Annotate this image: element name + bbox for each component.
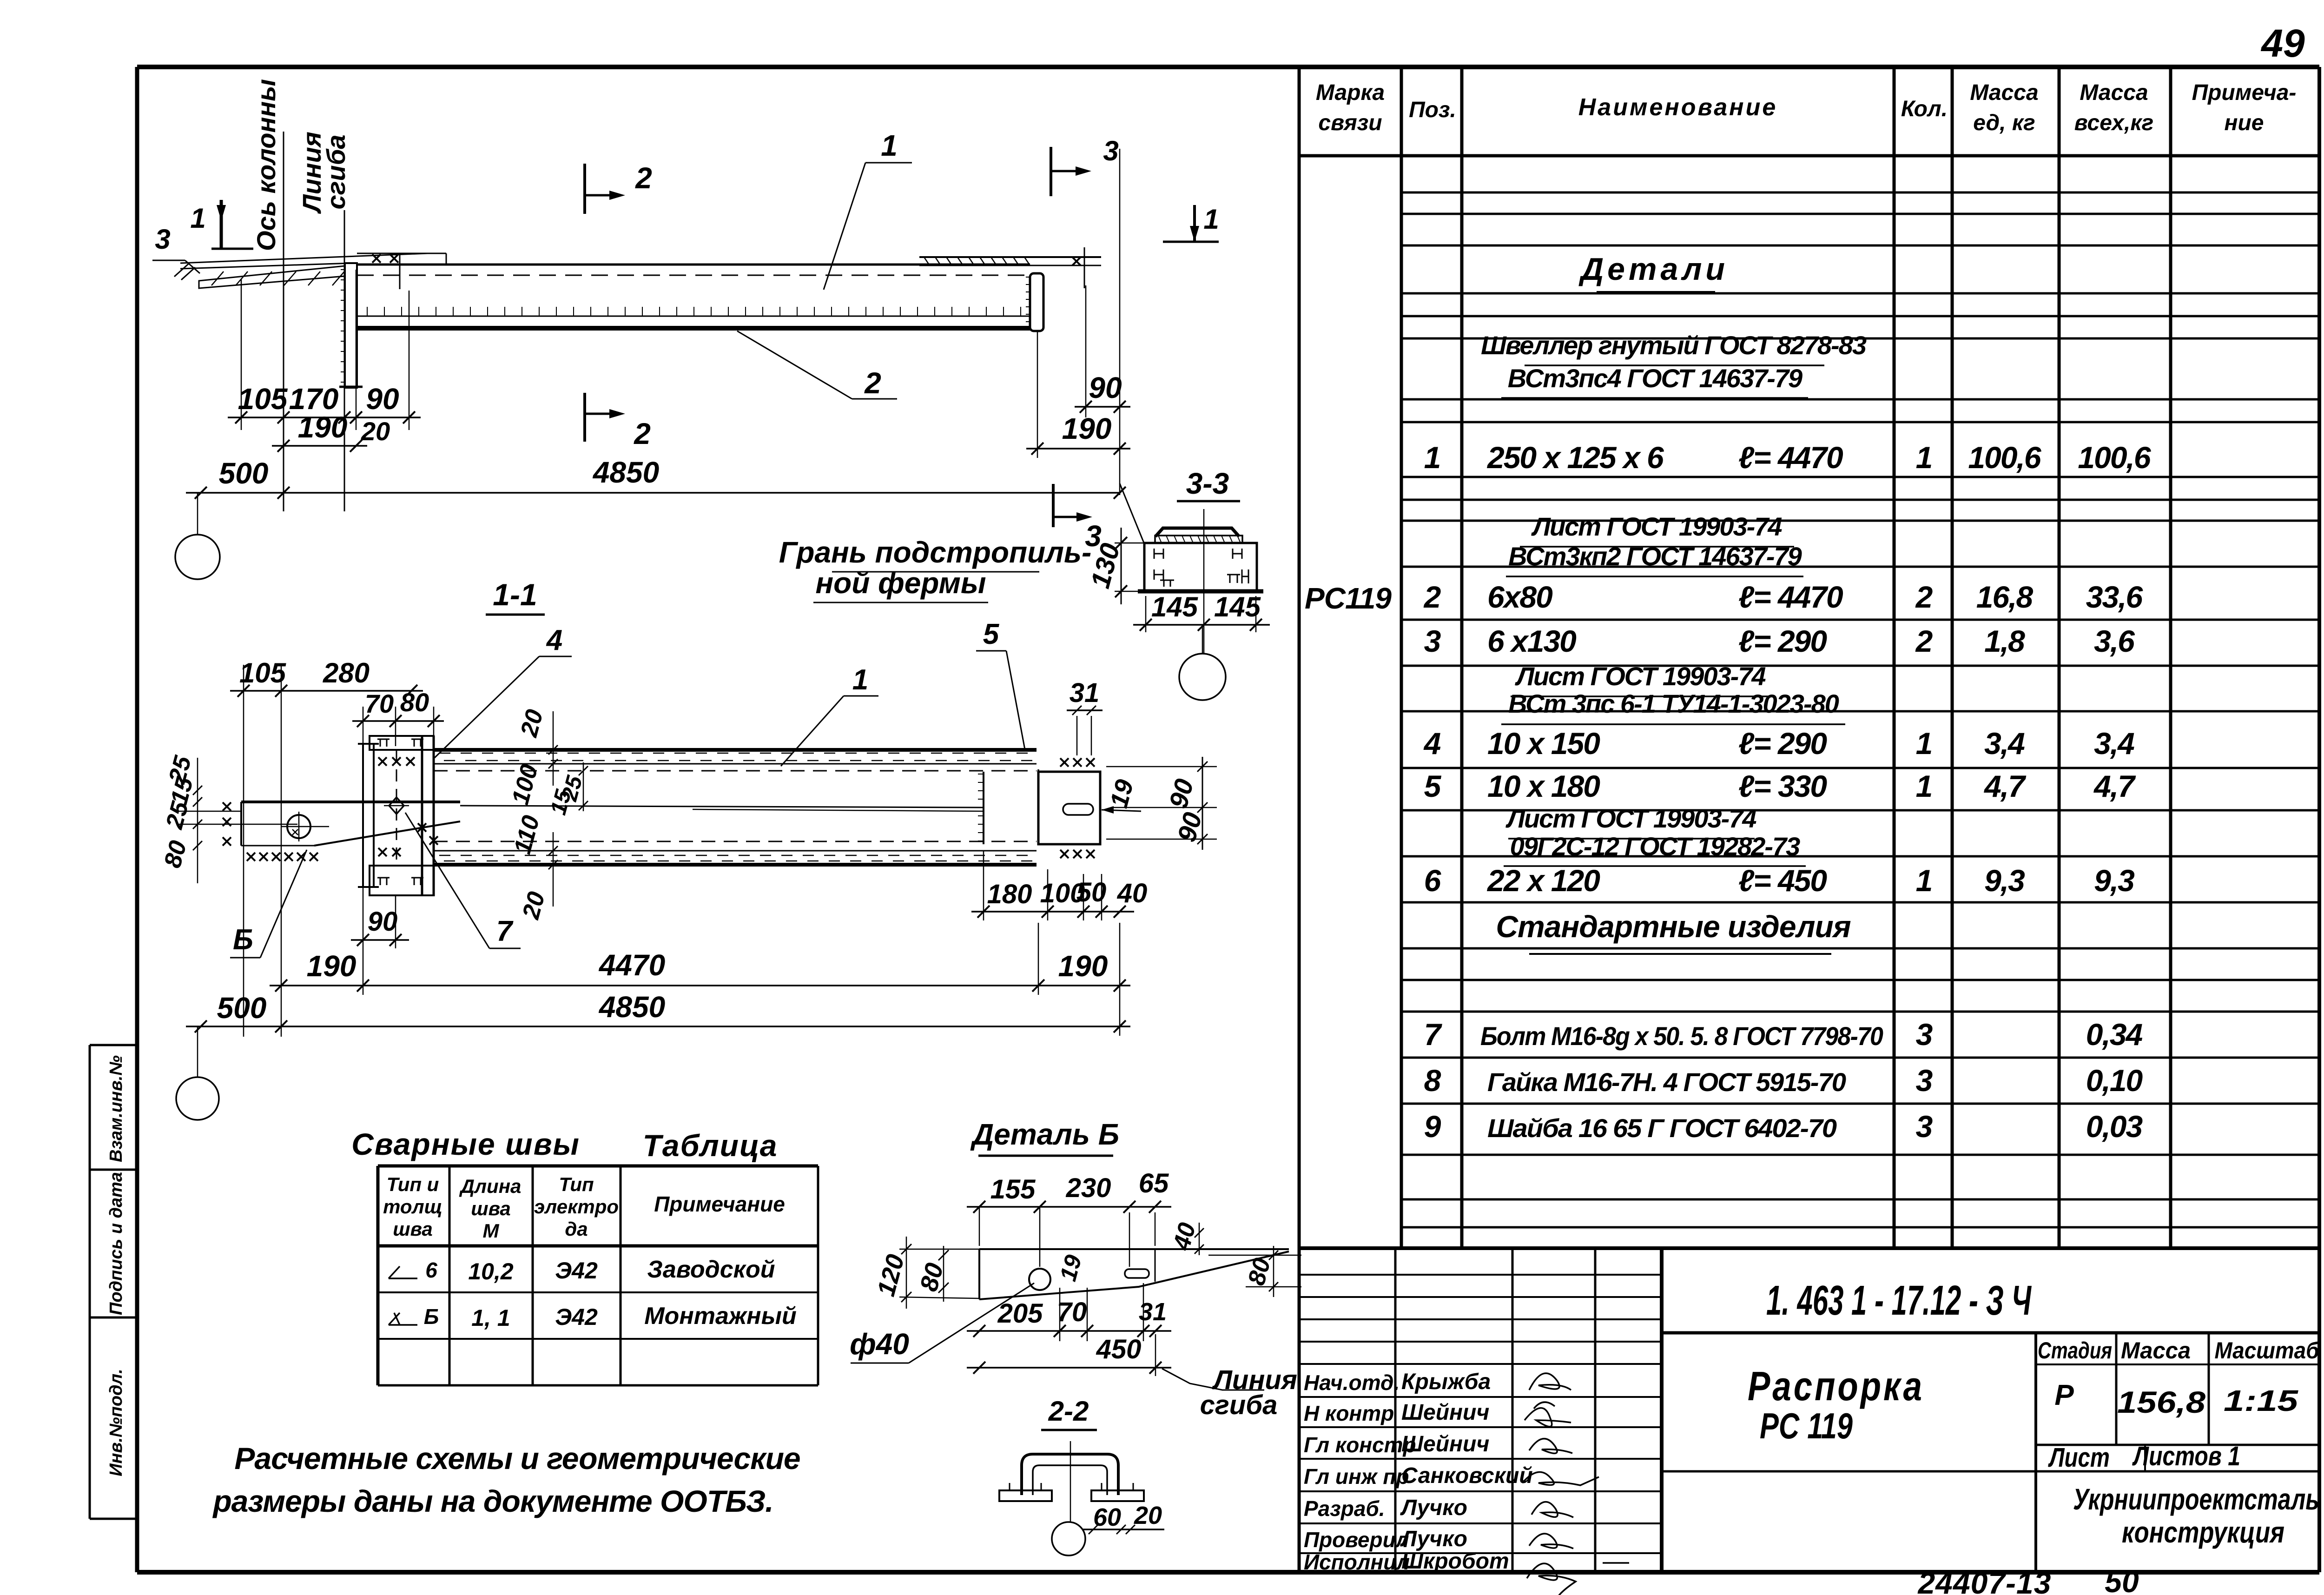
svg-text:связи: связи <box>1318 111 1382 135</box>
section 1-1 beam web line <box>460 806 984 807</box>
weld table row 1 <box>389 1266 417 1278</box>
title block signatures <box>1529 1373 1571 1390</box>
svg-text:Тип и: Тип и <box>387 1173 439 1195</box>
svg-text:1:15: 1:15 <box>2224 1384 2299 1417</box>
beam hatch ticks <box>367 307 368 316</box>
section mark 1 right <box>1163 241 1219 243</box>
svg-text:1-1: 1-1 <box>493 577 537 612</box>
svg-text:Проверил: Проверил <box>1304 1528 1409 1552</box>
svg-text:5: 5 <box>1424 769 1442 803</box>
section 1-1 gusset plates <box>362 744 364 887</box>
svg-text:80: 80 <box>400 688 429 717</box>
svg-text:2: 2 <box>864 366 881 400</box>
svg-text:3-3: 3-3 <box>1186 467 1229 500</box>
detail B plate <box>979 1248 1289 1250</box>
svg-text:Инв.№подл.: Инв.№подл. <box>106 1369 126 1476</box>
dimension 190 top view right <box>1026 448 1130 450</box>
svg-text:105: 105 <box>239 657 287 688</box>
column mark circle section 3-3 <box>1179 654 1226 700</box>
svg-text:Поз.: Поз. <box>1409 98 1456 122</box>
svg-text:размеры даны на документе: размеры даны на документе ООТБЗ. <box>212 1484 773 1518</box>
svg-text:ℓ= 450: ℓ= 450 <box>1738 863 1827 898</box>
title block signature area verticals <box>1394 1248 1397 1572</box>
svg-text:ед, кг: ед, кг <box>1973 111 2035 135</box>
section 2-2 channel <box>1022 1454 1118 1495</box>
svg-text:Листов 1: Листов 1 <box>2132 1441 2240 1471</box>
svg-text:3,6: 3,6 <box>2094 624 2135 658</box>
svg-text:40: 40 <box>1117 878 1148 908</box>
svg-text:Заводской: Заводской <box>647 1256 775 1283</box>
svg-text:16,8: 16,8 <box>1976 580 2033 614</box>
section 1-1 end plate poz5 <box>983 772 984 844</box>
gusset bolt diamond <box>389 797 404 814</box>
section 3-3 bolt symbols <box>1154 549 1163 559</box>
svg-text:да: да <box>565 1218 588 1240</box>
svg-text:90: 90 <box>368 907 398 937</box>
svg-text:09Г2С-12 ГОСТ 19282-73: 09Г2С-12 ГОСТ 19282-73 <box>1510 832 1801 861</box>
parts table header separator <box>1299 154 2319 158</box>
svg-text:Подпись и дата: Подпись и дата <box>106 1172 126 1315</box>
gusset x marks <box>378 757 387 766</box>
bracket left dims 25 15 25 80 <box>197 758 198 883</box>
svg-text:1: 1 <box>852 664 868 696</box>
svg-text:Таблица: Таблица <box>643 1128 778 1163</box>
svg-text:ℓ= 4470: ℓ= 4470 <box>1738 580 1843 614</box>
svg-text:1: 1 <box>1916 769 1933 803</box>
svg-text:Укрниипроектсталь: Укрниипроектсталь <box>2073 1482 2319 1516</box>
svg-text:РС119: РС119 <box>1305 582 1392 615</box>
svg-text:280: 280 <box>323 657 370 688</box>
svg-text:Масштаб: Масштаб <box>2215 1337 2320 1363</box>
svg-text:шва: шва <box>471 1198 511 1219</box>
dimension 190 top view <box>272 445 367 447</box>
svg-text:190: 190 <box>1058 949 1108 983</box>
detail B slot hole <box>1125 1269 1149 1278</box>
bracket thin lines left <box>179 811 241 812</box>
svg-text:1: 1 <box>1916 863 1933 898</box>
parts table horizontal lines <box>1401 192 2319 194</box>
svg-text:Масса: Масса <box>2121 1337 2191 1363</box>
svg-text:сгиба: сгиба <box>1200 1390 1278 1420</box>
svg-text:Санковский: Санковский <box>1401 1463 1533 1488</box>
svg-text:250 х 125 х 6: 250 х 125 х 6 <box>1486 440 1664 475</box>
drawing/table divider <box>1298 67 1301 1572</box>
svg-text:Болт М16-8g х 50. 5. 8 ГОСТ 77: Болт М16-8g х 50. 5. 8 ГОСТ 7798-70 <box>1480 1021 1883 1051</box>
detail B right dims 40 80 <box>1199 1223 1200 1255</box>
svg-text:180: 180 <box>987 879 1032 909</box>
svg-text:190: 190 <box>307 949 357 983</box>
svg-text:100,6: 100,6 <box>2078 440 2151 475</box>
bracket bolt circle <box>287 815 310 838</box>
svg-text:ℓ= 290: ℓ= 290 <box>1738 726 1827 761</box>
svg-text:сгиба: сгиба <box>321 134 350 209</box>
svg-text:20: 20 <box>1134 1502 1162 1529</box>
section 3-3 hatched strip <box>1155 536 1242 543</box>
svg-text:1. 463 1 - 17.12 - З Ч: 1. 463 1 - 17.12 - З Ч <box>1766 1277 2032 1324</box>
svg-text:190: 190 <box>298 410 348 444</box>
detail B dim 450 <box>967 1367 1171 1369</box>
svg-text:Нач.отд.: Нач.отд. <box>1304 1370 1400 1395</box>
svg-text:90: 90 <box>1089 371 1122 404</box>
svg-text:Р: Р <box>2054 1379 2074 1411</box>
svg-text:Лучко: Лучко <box>1400 1527 1467 1551</box>
svg-text:90: 90 <box>366 382 399 416</box>
svg-text:Распорка: Распорка <box>1748 1363 1924 1409</box>
svg-text:Шайба 16 65 Г ГОСТ 6402-70: Шайба 16 65 Г ГОСТ 6402-70 <box>1487 1113 1837 1143</box>
section mark 2 top <box>583 164 586 214</box>
svg-text:3,4: 3,4 <box>1984 726 2025 761</box>
svg-text:3: 3 <box>1916 1109 1933 1144</box>
svg-text:24407-13: 24407-13 <box>1917 1566 2052 1595</box>
section 1-1 beam bottom band <box>434 841 1037 842</box>
svg-text:145: 145 <box>1214 591 1261 622</box>
svg-text:100,6: 100,6 <box>1968 440 2041 475</box>
svg-text:Деталь Б: Деталь Б <box>970 1118 1119 1151</box>
svg-text:10 х 150: 10 х 150 <box>1487 726 1600 761</box>
svg-text:33,6: 33,6 <box>2086 580 2144 614</box>
dimension 105 170 20 90 top view <box>228 417 421 418</box>
svg-text:9,3: 9,3 <box>1984 863 2025 898</box>
svg-text:Ось колонны: Ось колонны <box>251 79 281 251</box>
svg-text:Лист ГОСТ 19903-74: Лист ГОСТ 19903-74 <box>1531 512 1782 541</box>
svg-text:70: 70 <box>1057 1297 1087 1327</box>
svg-text:3: 3 <box>1916 1017 1933 1052</box>
svg-text:Лист ГОСТ 19903-74: Лист ГОСТ 19903-74 <box>1514 662 1766 691</box>
section 2-2 axis <box>1070 1441 1071 1522</box>
svg-text:Наименование: Наименование <box>1578 94 1778 121</box>
svg-text:Б: Б <box>424 1304 439 1329</box>
svg-text:Длина: Длина <box>459 1175 522 1197</box>
top view left bracket plate <box>345 263 357 388</box>
svg-text:1: 1 <box>1916 440 1933 475</box>
detail B dims 205 70 31 <box>967 1330 1171 1332</box>
section 1-1 axis lines <box>243 665 244 1037</box>
svg-text:450: 450 <box>1096 1334 1142 1364</box>
svg-text:1: 1 <box>1424 440 1441 475</box>
svg-text:2: 2 <box>1915 624 1933 658</box>
svg-text:1: 1 <box>881 129 898 162</box>
side stamp boxes <box>89 1045 91 1519</box>
svg-text:М: М <box>483 1220 500 1242</box>
svg-text:9,3: 9,3 <box>2094 863 2134 898</box>
svg-text:Исполнил: Исполнил <box>1304 1550 1410 1574</box>
svg-text:2: 2 <box>1915 580 1933 614</box>
dimension 190 4470 190 <box>270 985 1130 986</box>
svg-text:6: 6 <box>1424 863 1442 898</box>
svg-text:50: 50 <box>2105 1564 2139 1595</box>
svg-text:ВСт 3пс 6-1 ТУ14-1-3023-80: ВСт 3пс 6-1 ТУ14-1-3023-80 <box>1508 689 1839 718</box>
svg-text:6: 6 <box>425 1258 437 1282</box>
section mark 3 lower <box>1052 484 1055 527</box>
section 2-2 circle <box>1052 1522 1085 1555</box>
svg-text:шва: шва <box>393 1218 433 1240</box>
dimension 90 gusset bottom <box>351 939 409 941</box>
svg-text:4850: 4850 <box>592 456 659 489</box>
dimension 90 top view right <box>1075 406 1130 408</box>
svg-text:Гл инж пр: Гл инж пр <box>1304 1464 1409 1489</box>
svg-text:31: 31 <box>1070 678 1100 708</box>
detail B left dims 120 80 <box>906 1237 907 1309</box>
svg-text:конструкция: конструкция <box>2122 1516 2284 1549</box>
title block thin rows <box>1299 1274 1662 1276</box>
svg-text:65: 65 <box>1139 1168 1169 1198</box>
parts table bottom line <box>1299 1246 2319 1250</box>
svg-text:5: 5 <box>983 618 1000 650</box>
svg-text:всех,кг: всех,кг <box>2074 111 2154 135</box>
svg-text:ВСт3кп2 ГОСТ 14637-79: ВСт3кп2 ГОСТ 14637-79 <box>1508 542 1802 571</box>
svg-text:6х80: 6х80 <box>1487 580 1553 614</box>
svg-text:Крыжба: Крыжба <box>1401 1370 1491 1394</box>
axis bend line (liniya sgiba) <box>344 210 345 511</box>
svg-text:Лучко: Лучко <box>1400 1496 1467 1520</box>
svg-text:6 х130: 6 х130 <box>1487 624 1577 658</box>
column mark circle section 1-1 <box>176 1077 219 1120</box>
svg-text:Примеча-: Примеча- <box>2192 80 2297 105</box>
section 3-3 body <box>1144 543 1257 591</box>
detail B hole circle <box>1029 1269 1050 1290</box>
svg-text:7: 7 <box>496 915 514 947</box>
svg-text:Тип: Тип <box>559 1173 594 1195</box>
svg-text:Гл констр: Гл констр <box>1304 1433 1416 1457</box>
svg-text:1,8: 1,8 <box>1984 624 2025 658</box>
svg-text:Э42: Э42 <box>555 1257 598 1284</box>
section mark 2 bottom <box>583 393 586 442</box>
gusset channel symbols <box>377 739 390 747</box>
svg-text:Сварные швы: Сварные швы <box>351 1127 580 1161</box>
svg-text:Взам.инв.№: Взам.инв.№ <box>106 1055 126 1162</box>
long extension line right <box>1119 149 1121 495</box>
svg-text:3: 3 <box>1916 1063 1933 1098</box>
section 2-2 dims 60 20 <box>1083 1529 1164 1530</box>
dimension 105 280 section 1-1 <box>230 690 423 692</box>
svg-text:Стадия: Стадия <box>2038 1337 2112 1363</box>
weld table grid <box>378 1165 818 1168</box>
svg-text:3: 3 <box>155 224 170 255</box>
svg-text:49: 49 <box>2260 21 2305 65</box>
svg-text:ℓ= 4470: ℓ= 4470 <box>1738 440 1843 475</box>
svg-text:4470: 4470 <box>598 948 665 982</box>
svg-text:4,7: 4,7 <box>1983 769 2027 803</box>
svg-text:4,7: 4,7 <box>2093 769 2136 803</box>
leader to 3-3 section <box>1120 483 1144 544</box>
svg-text:Масса: Масса <box>1970 80 2038 105</box>
svg-text:Стандартные изделия: Стандартные изделия <box>1496 909 1850 944</box>
svg-text:0,10: 0,10 <box>2086 1063 2143 1098</box>
svg-text:Гайка М16-7Н. 4 ГОСТ 5915-70: Гайка М16-7Н. 4 ГОСТ 5915-70 <box>1487 1067 1846 1097</box>
dimension 70 80 section 1-1 <box>352 720 444 722</box>
svg-text:электро: электро <box>534 1196 619 1218</box>
svg-text:Кол.: Кол. <box>1901 97 1948 121</box>
svg-text:толщ: толщ <box>383 1196 442 1218</box>
detail B bend line <box>1155 1249 1156 1282</box>
svg-text:ф40: ф40 <box>850 1327 909 1361</box>
page frame <box>137 65 2319 69</box>
dimension 90 90 right side <box>1202 757 1203 850</box>
svg-text:Э42: Э42 <box>555 1304 598 1330</box>
cross mark at plate end <box>1084 247 1085 288</box>
svg-text:9: 9 <box>1424 1109 1441 1144</box>
svg-text:500: 500 <box>217 991 267 1025</box>
title block name rows <box>1299 1396 1662 1398</box>
svg-text:230: 230 <box>1066 1173 1111 1203</box>
top view right end top plate poz2 <box>919 256 1101 258</box>
svg-text:190: 190 <box>1062 412 1112 445</box>
svg-text:1, 1: 1, 1 <box>471 1305 510 1331</box>
parts table verticals <box>1400 67 1403 1248</box>
svg-text:155: 155 <box>990 1174 1036 1205</box>
detail B dims 155 230 65 <box>967 1206 1171 1208</box>
svg-text:22 х 120: 22 х 120 <box>1486 863 1600 898</box>
svg-text:1: 1 <box>1203 204 1219 235</box>
svg-text:Расчетные схемы и геометрич: Расчетные схемы и геометрические <box>234 1441 800 1476</box>
svg-text:ВСт3пс4 ГОСТ 14637-79: ВСт3пс4 ГОСТ 14637-79 <box>1508 364 1802 393</box>
svg-text:ние: ние <box>2224 111 2264 135</box>
svg-text:10 х 180: 10 х 180 <box>1487 769 1600 803</box>
svg-text:4: 4 <box>546 624 562 656</box>
svg-text:70: 70 <box>365 689 394 718</box>
svg-text:Масса: Масса <box>2080 80 2148 105</box>
svg-text:Марка: Марка <box>1316 80 1385 105</box>
svg-text:0,03: 0,03 <box>2086 1109 2143 1144</box>
svg-text:145: 145 <box>1151 591 1199 622</box>
svg-text:4: 4 <box>1423 726 1441 761</box>
column mark circle top view <box>175 535 220 579</box>
top view bent wedge plate <box>199 266 345 288</box>
section mark 1 left <box>220 200 223 249</box>
svg-text:Б: Б <box>233 924 253 956</box>
svg-text:Шейнич: Шейнич <box>1401 1400 1489 1425</box>
svg-text:ℓ= 330: ℓ= 330 <box>1738 769 1827 803</box>
svg-text:Монтажный: Монтажный <box>644 1303 797 1330</box>
svg-text:3,4: 3,4 <box>2094 726 2134 761</box>
svg-text:500: 500 <box>219 457 269 490</box>
svg-text:Лист ГОСТ 19903-74: Лист ГОСТ 19903-74 <box>1505 804 1756 833</box>
dimension 500 4850 top view <box>186 492 1120 494</box>
top view small plate right of bracket <box>357 253 446 254</box>
svg-text:ной фермы: ной фермы <box>815 566 986 600</box>
weld table row 2 <box>389 1313 417 1325</box>
top view beam channel poz1 <box>357 264 1030 266</box>
svg-text:Шейнич: Шейнич <box>1401 1432 1489 1456</box>
section 2-2 foot plates <box>999 1490 1052 1501</box>
svg-text:3: 3 <box>1424 624 1441 658</box>
svg-text:20: 20 <box>361 417 390 446</box>
dimension 500 4850 section 1-1 <box>186 1026 1130 1027</box>
svg-text:156,8: 156,8 <box>2117 1385 2205 1419</box>
svg-text:Разраб.: Разраб. <box>1304 1496 1385 1521</box>
svg-text:7: 7 <box>1424 1017 1443 1052</box>
svg-text:ℓ= 290: ℓ= 290 <box>1738 624 1827 658</box>
title block stadiya massa masshtab <box>2115 1333 2118 1445</box>
top view thin plate poz3 left <box>180 253 428 263</box>
svg-text:2-2: 2-2 <box>1048 1396 1089 1427</box>
svg-text:2: 2 <box>1423 580 1441 614</box>
axis column line (os kolonny) <box>283 132 284 511</box>
svg-text:Н контр: Н контр <box>1304 1401 1394 1425</box>
svg-text:Детали: Детали <box>1578 251 1729 287</box>
svg-text:3: 3 <box>1103 135 1118 166</box>
svg-text:1: 1 <box>1916 726 1933 761</box>
top view beam end plate <box>1030 273 1043 331</box>
svg-text:Лист: Лист <box>2048 1443 2110 1473</box>
section mark 3 right <box>1050 147 1052 196</box>
section 1-1 beam top band <box>434 748 1037 752</box>
dimension 145 145 section 3-3 <box>1133 624 1270 626</box>
svg-text:Примечание: Примечание <box>654 1192 785 1216</box>
svg-text:Грань подстропиль-: Грань подстропиль- <box>779 536 1092 569</box>
svg-text:Швеллер гнутый ГОСТ 8278-83: Швеллер гнутый ГОСТ 8278-83 <box>1481 331 1867 360</box>
end plate x marks <box>1060 758 1069 767</box>
svg-text:1: 1 <box>190 203 205 234</box>
end plate slot hole <box>1063 804 1093 815</box>
svg-text:8: 8 <box>1424 1063 1441 1098</box>
svg-text:60: 60 <box>1093 1503 1121 1531</box>
svg-text:Шкробот: Шкробот <box>1401 1549 1509 1574</box>
svg-text:10,2: 10,2 <box>468 1258 514 1284</box>
section 1-1 bracket plate poz6 <box>241 801 460 803</box>
svg-text:2: 2 <box>634 417 651 450</box>
section 3-3 center line <box>1203 509 1205 654</box>
svg-text:4850: 4850 <box>598 990 665 1024</box>
svg-text:2: 2 <box>635 161 652 195</box>
svg-text:205: 205 <box>997 1298 1043 1329</box>
section 3-3 top cap <box>1155 528 1239 536</box>
svg-text:РС 119: РС 119 <box>1760 1405 1853 1446</box>
dimension 180 100 50 40 <box>971 911 1134 913</box>
svg-text:0,34: 0,34 <box>2086 1017 2143 1052</box>
bracket x marks <box>247 853 255 861</box>
svg-text:105: 105 <box>238 382 288 416</box>
